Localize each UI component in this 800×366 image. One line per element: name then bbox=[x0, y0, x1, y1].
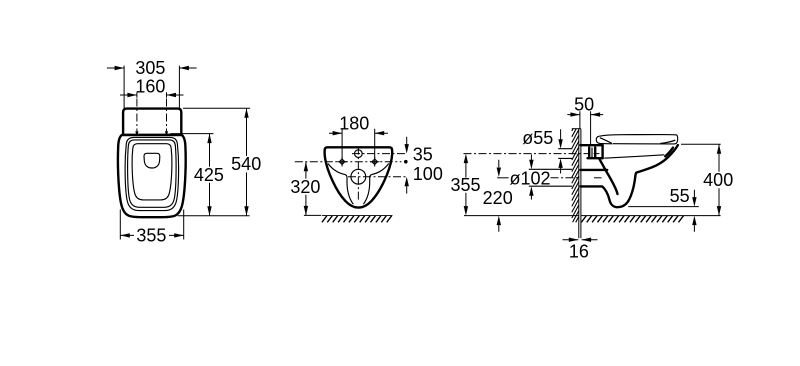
inlet centerline horizontal bbox=[352, 153, 407, 155]
ground line (front view) bbox=[304, 214, 321, 216]
trap inner diagonal bbox=[599, 159, 617, 194]
dimension 50 arrows bbox=[567, 112, 603, 116]
inlet pipe stub and connector box bbox=[588, 145, 603, 158]
svg-text:35: 35 bbox=[413, 145, 433, 165]
fixing holes centerline horizontal bbox=[295, 161, 402, 163]
fixing hole centerline left bbox=[136, 99, 138, 132]
svg-text:355: 355 bbox=[136, 225, 166, 245]
ground hatching (side view) bbox=[581, 216, 683, 223]
wall hatching bbox=[572, 129, 579, 223]
bowl outline (front) bbox=[325, 147, 393, 207]
dimension 400 extension line bbox=[681, 143, 721, 145]
svg-text:540: 540 bbox=[231, 154, 261, 174]
FRONT VIEW (middle) bbox=[290, 114, 442, 223]
dimension 540 extension lines bbox=[178, 108, 251, 216]
dimension 50 extension lines bbox=[580, 111, 591, 144]
dimension 305 extension lines bbox=[124, 66, 179, 109]
svg-text:50: 50 bbox=[574, 94, 594, 114]
pan body outline bbox=[118, 135, 186, 217]
dimension 35 terminator dot bbox=[404, 160, 408, 164]
interior trap centerline segment bbox=[594, 177, 602, 179]
wall panel lines bbox=[579, 129, 581, 239]
seat lid profile bbox=[599, 135, 677, 144]
trap top edge bbox=[580, 169, 607, 171]
outlet hole (large circle) bbox=[351, 169, 366, 184]
outlet centerline tick (220 landing) bbox=[497, 177, 508, 179]
outlet centerline horizontal bbox=[348, 176, 407, 178]
rim top edge bbox=[580, 144, 602, 146]
dimension 320 line and arrows bbox=[304, 162, 308, 216]
svg-text:ø102: ø102 bbox=[510, 169, 551, 189]
dimension 540 line and arrows bbox=[244, 108, 248, 216]
bowl lower outline bbox=[580, 145, 678, 207]
water inlet hole (small circle) bbox=[355, 150, 363, 158]
rim inner slope line bbox=[604, 155, 664, 158]
svg-text:425: 425 bbox=[194, 165, 224, 185]
ground line right of wall bbox=[581, 215, 721, 217]
svg-text:220: 220 bbox=[483, 188, 513, 208]
SIDE VIEW (right) bbox=[450, 94, 733, 261]
svg-text:305: 305 bbox=[135, 58, 165, 78]
svg-text:16: 16 bbox=[569, 242, 589, 262]
svg-text:400: 400 bbox=[703, 170, 733, 190]
dimension 355 line and arrows (side) bbox=[464, 154, 468, 216]
fixing hole centerline right bbox=[166, 99, 168, 132]
dimension 35 arrow bbox=[405, 137, 409, 154]
svg-text:160: 160 bbox=[135, 76, 165, 96]
svg-text:55: 55 bbox=[670, 186, 690, 206]
dimension 220 arrows bbox=[497, 160, 501, 232]
seat outer ring bbox=[125, 137, 179, 210]
dimension 180 arrows bbox=[329, 131, 388, 135]
bowl interior contour left bbox=[328, 164, 353, 205]
outlet pipe behind wall (o102) bbox=[529, 169, 572, 186]
o55 dimension arrows bbox=[558, 129, 562, 173]
dimension 400 line and arrows bbox=[717, 144, 721, 215]
dimension 100 arrow bbox=[405, 177, 409, 194]
dimension 425 line and arrows bbox=[207, 134, 211, 216]
seat inner ring bbox=[128, 140, 177, 207]
ground hatching (front view) bbox=[322, 216, 393, 223]
fixing hole diamond right bbox=[370, 157, 379, 167]
inlet centerline (side view) bbox=[464, 153, 590, 155]
wall top cap bbox=[572, 128, 581, 130]
bowl opening bbox=[132, 144, 172, 200]
dimension 355 extension lines bbox=[120, 210, 183, 240]
dimension 425 extension line bbox=[170, 133, 213, 135]
PLAN VIEW (left) bbox=[107, 58, 261, 245]
fixing hole pointer arrow right bbox=[165, 131, 168, 136]
cistern plate (top rounded rectangle) bbox=[123, 109, 181, 135]
svg-text:355: 355 bbox=[450, 175, 480, 195]
svg-text:100: 100 bbox=[413, 164, 443, 184]
fixing hole diamond left bbox=[337, 157, 346, 167]
svg-text:320: 320 bbox=[290, 177, 320, 197]
dimension 55 arrows bbox=[692, 190, 696, 232]
svg-text:ø55: ø55 bbox=[522, 128, 553, 148]
dimension 16 arrows bbox=[563, 238, 598, 242]
fixing hole pointer arrow left bbox=[135, 131, 138, 136]
svg-text:180: 180 bbox=[339, 114, 369, 134]
inlet pipe behind wall (o55) bbox=[558, 149, 572, 159]
o102 dimension arrows bbox=[529, 154, 533, 199]
outlet centerline (side view) bbox=[551, 177, 579, 179]
bowl bottom reference line bbox=[628, 206, 699, 208]
dimension 305 arrows bbox=[107, 66, 197, 70]
rim outer edge under seat bbox=[665, 148, 673, 157]
seat hinge detail bbox=[596, 136, 612, 144]
dimension 160 arrows bbox=[120, 92, 184, 97]
seat bumper cap bbox=[660, 140, 675, 143]
vertical centerline bbox=[357, 147, 359, 200]
bowl interior contour right bbox=[363, 164, 388, 205]
dimension 355 arrows bbox=[120, 233, 183, 237]
flush outlet cup bbox=[144, 153, 160, 168]
dimension 180 extension lines bbox=[342, 129, 375, 160]
ground line left of wall bbox=[464, 215, 579, 217]
